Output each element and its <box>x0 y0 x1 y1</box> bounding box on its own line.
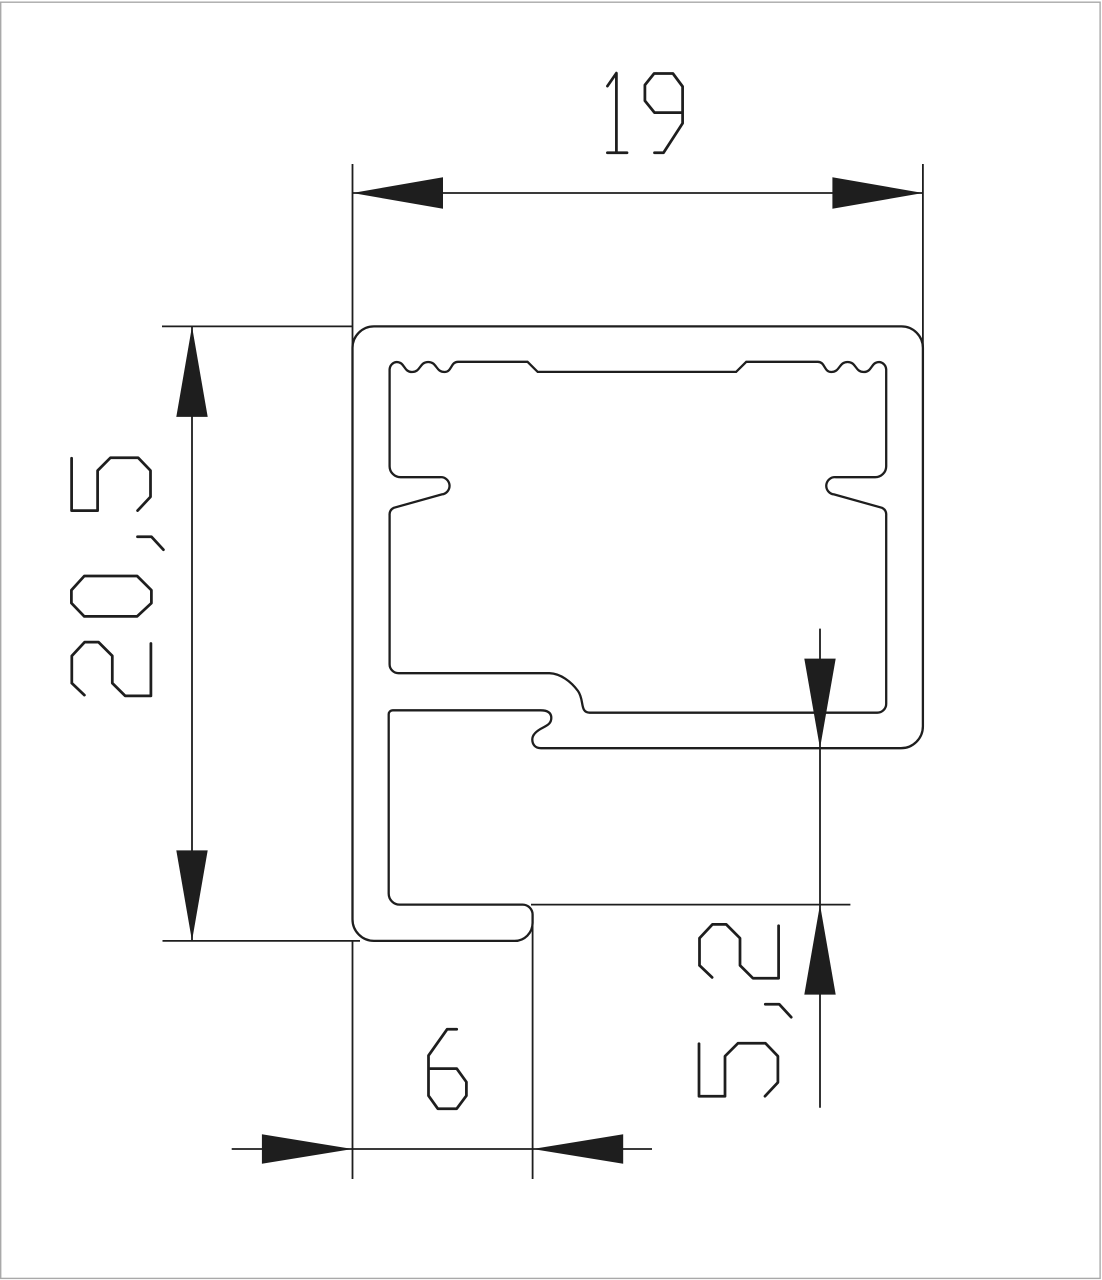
text 20,5 (left, rotated) <box>72 642 151 696</box>
dimension 6: dimension line with tails <box>232 1148 652 1150</box>
dimension 19: dimension line <box>353 192 923 194</box>
dimension 6: right arrowhead <box>533 1134 624 1163</box>
profile inner cavity contour <box>390 362 887 713</box>
dimension 5,2: extension line <box>531 904 850 906</box>
dimension 19: left arrowhead <box>353 177 444 208</box>
profile outer contour <box>353 326 923 941</box>
dimension 5,2: lower arrowhead (points up) <box>804 905 835 995</box>
text 19 (top) <box>607 73 627 153</box>
dimension 19: right arrowhead <box>832 177 923 208</box>
text 6 (bottom) <box>429 1029 467 1108</box>
dimension 20,5: extension lines <box>162 326 360 941</box>
text 5,2 (right, rotated) <box>700 924 779 978</box>
dimension 5,2: dimension line <box>819 629 821 1108</box>
dimension 6: left arrowhead <box>262 1134 353 1163</box>
dimension 20,5: top arrowhead <box>176 326 207 417</box>
dimension 5,2: upper arrowhead (points down) <box>804 659 835 749</box>
dimension 19: extension lines <box>353 164 923 348</box>
dimension 6: extension lines <box>353 918 533 1179</box>
dimension 20,5: dimension line <box>191 326 193 941</box>
dimension 20,5: bottom arrowhead <box>176 850 207 941</box>
